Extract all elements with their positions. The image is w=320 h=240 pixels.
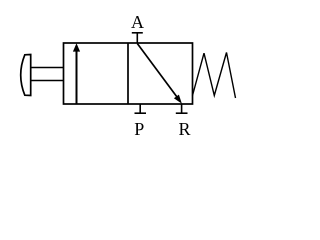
valve position divider bbox=[127, 43, 129, 104]
return spring bbox=[193, 53, 236, 99]
port A stub bbox=[136, 33, 138, 44]
port P stub bbox=[139, 104, 141, 113]
port R stub bbox=[181, 104, 183, 113]
svg-text:P: P bbox=[134, 119, 144, 139]
port R terminal bar bbox=[176, 112, 188, 114]
valve body outline (two position boxes) bbox=[64, 43, 193, 104]
plunger stem upper line bbox=[31, 67, 64, 69]
svg-text:R: R bbox=[178, 119, 190, 139]
plunger stem lower line bbox=[31, 80, 64, 82]
flow arrow up (actuated position P to A) bbox=[73, 43, 80, 104]
push button actuator mushroom bbox=[21, 55, 31, 96]
flow arrow diagonal A to R (rest position) bbox=[137, 44, 182, 104]
svg-text:A: A bbox=[131, 12, 144, 32]
port A terminal bar bbox=[132, 32, 143, 34]
port P terminal bar bbox=[135, 112, 147, 114]
